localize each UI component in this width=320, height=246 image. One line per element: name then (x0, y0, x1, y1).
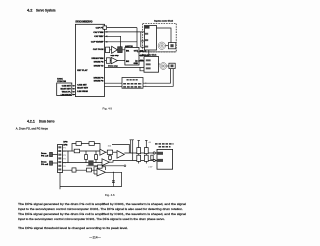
heading 4.2 Servo System (27, 7, 56, 12)
drum driver text 1 (146, 59, 151, 61)
svg-text:Fig. 4-6: Fig. 4-6 (105, 193, 115, 197)
svg-text:+B: +B (148, 142, 151, 144)
svg-text:Drum Servo: Drum Servo (39, 119, 55, 123)
svg-text:P1: P1 (63, 148, 65, 150)
column cap 1b (137, 155, 141, 161)
svg-text:input to the servo/system cont: input to the servo/system control microc… (18, 207, 183, 211)
wire CAP VD row4 (105, 41, 138, 43)
svg-text:Drum: Drum (41, 152, 47, 155)
wire drum vd bus (105, 66, 145, 68)
supply ticks (130, 139, 134, 141)
svg-text:—114—: —114— (89, 236, 101, 240)
svg-text:DRUM PG: DRUM PG (94, 78, 104, 80)
connector pin labels (63, 148, 65, 168)
wire pg main (63, 150, 100, 152)
cap on loop (89, 142, 94, 146)
test point circle on bias rail (124, 165, 126, 167)
wire fg out (110, 161, 158, 163)
wire CAP PWM row2 (105, 31, 145, 33)
capstan drive middle box (125, 48, 139, 66)
svg-text:CAP FG IN: CAP FG IN (93, 48, 104, 51)
svg-text:Drum: Drum (41, 161, 47, 164)
column vertical 2 (145, 141, 147, 164)
pin blob capstan 2 (145, 39, 148, 41)
op amp fg (102, 159, 110, 166)
svg-text:CAP REV: CAP REV (94, 35, 104, 38)
column cap 2a (144, 148, 148, 154)
wire fg main (63, 161, 103, 163)
divider vertical x68 (67, 151, 69, 162)
arrowheads mechacon (73, 85, 76, 95)
label servo syscom ucom (155, 143, 174, 145)
output node circle fg (153, 159, 155, 161)
wire capstan driver to motor (157, 28, 172, 43)
svg-text:CAP PWM: CAP PWM (93, 31, 103, 34)
supply vertical 1 (130, 140, 132, 153)
op amp pg first (100, 149, 106, 155)
drum driver text 2 (146, 63, 151, 65)
lower stage input wire (63, 169, 98, 171)
drum driver box (144, 57, 159, 73)
arrowhead row3 (105, 35, 108, 37)
connector CN901 (58, 145, 63, 173)
wire mechacon to syscon 2 (72, 88, 76, 90)
svg-text:The DPG signal threshold level: The DPG signal threshold level is change… (18, 226, 128, 230)
component between wires x86 (85, 151, 87, 162)
svg-text:PG coil: PG coil (41, 156, 49, 158)
pin blobs middle box outputs (140, 50, 143, 52)
column cap 1a (137, 148, 141, 154)
wire drive out 1 (139, 50, 146, 51)
svg-text:P4: P4 (63, 159, 65, 161)
capstan motor dashed box (143, 23, 177, 52)
svg-text:P2: P2 (63, 151, 65, 153)
vertical bus x137 (137, 28, 144, 61)
svg-text:CAP VD/REF: CAP VD/REF (91, 41, 104, 44)
wire drive out 2 (139, 50, 149, 56)
svg-text:P3: P3 (63, 155, 65, 157)
wire fg coil to connector (53, 162, 58, 164)
wire mechacon to syscon 4 (72, 94, 76, 96)
junction dot lower amp output (113, 172, 114, 173)
svg-text:FG coil: FG coil (41, 164, 48, 166)
wire CAP FG row1 (105, 27, 138, 29)
pin blob capstan 3 (145, 46, 148, 48)
feedback rect lower (94, 167, 106, 174)
small box on lower feedback (98, 165, 103, 168)
pin blob DFG (157, 159, 163, 162)
box interstage (107, 150, 112, 154)
svg-text:DRUM FG: DRUM FG (94, 81, 104, 83)
wire motor to fg sensor (166, 45, 169, 47)
stub into capstan driver y41 (141, 40, 145, 42)
drum FG sensor box (169, 63, 175, 68)
column vertical 1 (138, 141, 140, 164)
label drum fg 2.5v (123, 86, 142, 88)
svg-text:IC601: IC601 (57, 78, 63, 80)
svg-text:DRUM FG: DRUM FG (94, 61, 104, 63)
svg-text:The DFG signal generated by th: The DFG signal generated by the drum FG … (18, 212, 186, 216)
wire row A cap fg amp (105, 49, 126, 51)
drum block dashed line (137, 51, 176, 53)
arrow into drum driver (135, 60, 144, 62)
svg-text:cap amp: cap amp (111, 55, 120, 57)
IC301 box (157, 149, 173, 169)
svg-text:TRICK PL: TRICK PL (62, 92, 72, 94)
stub into capstan driver y47.2 (141, 46, 145, 48)
resistor on loop (76, 142, 81, 146)
svg-text:Capstan motor block: Capstan motor block (154, 19, 174, 22)
small box lower wire (72, 168, 76, 172)
svg-text:4.2: 4.2 (27, 7, 33, 12)
supply vertical 2 (132, 140, 134, 161)
op amp pg second (117, 151, 124, 159)
pg coil box (50, 152, 53, 156)
label box title (127, 79, 139, 81)
stub drum driver pin3 (140, 68, 144, 71)
svg-text:LIM DRUM: LIM DRUM (61, 94, 71, 96)
svg-text:DPG: DPG (63, 142, 68, 144)
output node circle pg (153, 152, 155, 154)
svg-text:Servo System: Servo System (36, 7, 56, 12)
svg-text:Drum motor block: Drum motor block (142, 54, 157, 57)
drum driver text 3 (146, 67, 151, 69)
svg-text:The DPG signal generated by th: The DPG signal generated by the drum PG … (18, 202, 186, 206)
heading 4.2.1 Drum Servo (27, 119, 55, 123)
junction dots after label box (145, 83, 146, 84)
mechacon small box (57, 83, 72, 96)
fg coil box (50, 161, 53, 165)
connector ground stub (59, 173, 61, 190)
capstan driver box (145, 26, 157, 51)
capacitor branch to ground (112, 172, 114, 186)
svg-text:100: 100 (108, 146, 112, 148)
box lower wire 2 (87, 168, 92, 172)
drum pg fg label box (122, 78, 143, 89)
drum motor circle (160, 63, 167, 70)
wire pg out (124, 152, 157, 154)
syscon/servo box IC301 (75, 24, 104, 96)
component between wires x96 (95, 151, 97, 162)
pin blob DPG (157, 152, 163, 155)
wire pg interstage (106, 151, 117, 153)
filter box row B (106, 58, 110, 64)
wire pg coil to connector (53, 154, 58, 156)
wire inverting input lower amp (94, 173, 97, 175)
junction dots wire pg (67, 150, 68, 151)
label drum pg 2.5v (123, 83, 142, 85)
wire drive out 3 (139, 60, 144, 62)
svg-text:DRUM VD: DRUM VD (94, 66, 104, 68)
wire mechacon to syscon 3 (72, 91, 76, 93)
svg-text:DRUM PWM: DRUM PWM (92, 58, 104, 60)
capstan FG sensor box (168, 43, 175, 49)
small box between outputs (151, 155, 153, 160)
svg-text:MAST KEY: MAST KEY (77, 87, 88, 90)
svg-text:CAP FG: CAP FG (96, 27, 104, 30)
hanging component under interstage (109, 154, 111, 160)
dark cap bottom (88, 160, 93, 165)
wire DRUM PG return (105, 69, 171, 83)
wire mechacon to syscon 1 (72, 85, 76, 87)
amp triangle row B (111, 57, 117, 63)
svg-text:LIM DRUM: LIM DRUM (77, 91, 88, 93)
op amp lower (97, 169, 106, 176)
vertical bus x140.8 (140, 32, 142, 47)
svg-text:4.2.1: 4.2.1 (27, 119, 35, 123)
svg-text:KEY PLAY: KEY PLAY (77, 69, 88, 72)
svg-text:GND: GND (134, 63, 139, 65)
svg-text:MAST KEY: MAST KEY (60, 88, 71, 91)
arrowhead row2 (105, 31, 108, 33)
capacitor C plates (112, 181, 115, 183)
connector pins (58, 146, 61, 148)
svg-text:A. Drum FG, and PG Amps: A. Drum FG, and PG Amps (16, 126, 48, 130)
svg-text:DFG: DFG (63, 144, 68, 146)
top bias line (112, 144, 129, 153)
dark blob FG (145, 26, 150, 29)
wire driver to drum motor (159, 63, 160, 65)
lower output wire (60, 172, 122, 186)
svg-text:Fig. 4-5: Fig. 4-5 (103, 106, 113, 110)
wire DRUM FG return (105, 69, 174, 86)
arrowhead row4 (105, 41, 108, 43)
column cap 2b (144, 155, 148, 161)
pin blob capstan 1 (145, 33, 148, 35)
amp triangle row A (112, 46, 118, 53)
dark block row A (118, 47, 123, 53)
svg-text:SYSCON/SERVO: SYSCON/SERVO (75, 22, 92, 24)
wire CAP REV row3 with drop (105, 36, 121, 47)
svg-text:CAM SET: CAM SET (77, 83, 87, 86)
svg-text:input to the servo/system cont: input to the servo/system control microc… (18, 217, 165, 221)
component box on row1 (103, 26, 107, 29)
wire row B drum fg amp (105, 60, 126, 62)
capstan motor circle (158, 42, 165, 49)
filter box row A (106, 47, 110, 53)
svg-text:P6: P6 (63, 166, 65, 168)
feedback loop pg (72, 144, 100, 152)
wire drum motor to fg (167, 65, 169, 67)
ground rail (87, 165, 125, 167)
resistor on pg wire (74, 149, 79, 153)
svg-text:2.5V: 2.5V (148, 167, 153, 169)
svg-text:CAM SET: CAM SET (62, 85, 72, 88)
svg-text:drum amp: drum amp (108, 65, 118, 67)
junction dots fg wire (67, 162, 68, 163)
